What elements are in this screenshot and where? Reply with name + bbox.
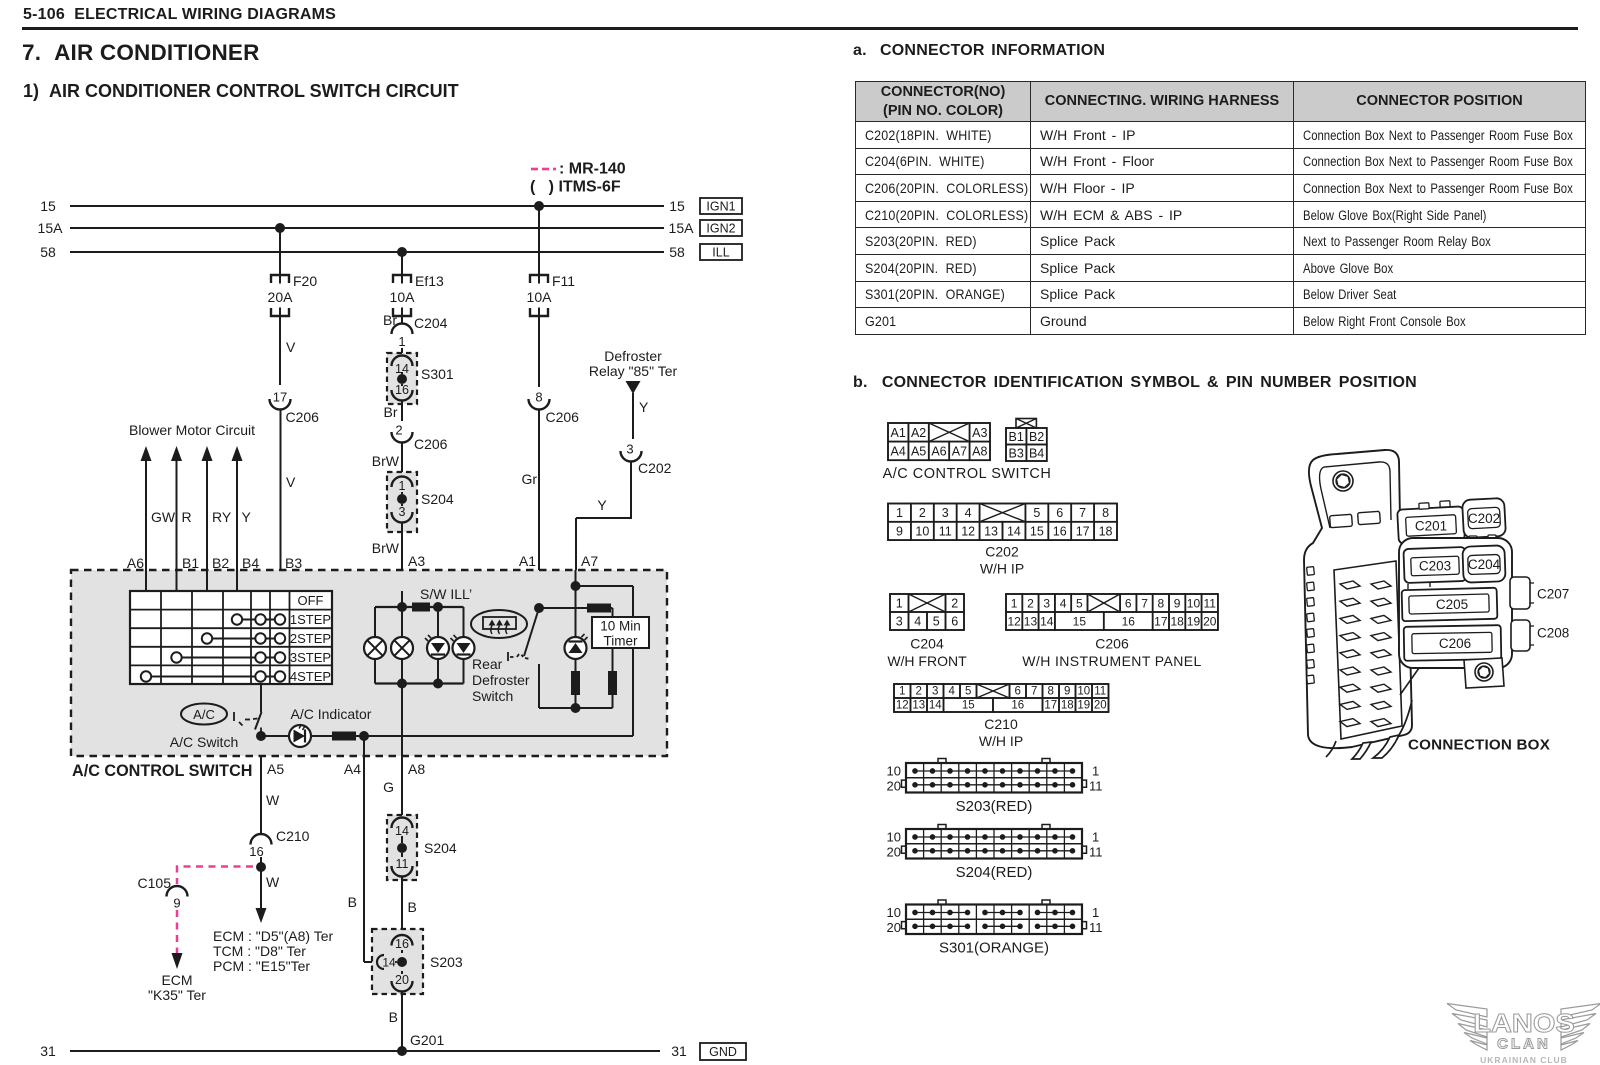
svg-text:20: 20 <box>887 778 901 793</box>
wire LED to resistor <box>311 735 332 737</box>
svg-text:1: 1 <box>899 686 905 698</box>
svg-text:C201: C201 <box>1415 519 1447 534</box>
svg-text:20: 20 <box>887 844 901 859</box>
wire A7 node to LED branch <box>575 570 577 637</box>
connector C105 pin 9 <box>138 875 188 911</box>
svg-text:C202: C202 <box>638 460 672 476</box>
svg-text:14: 14 <box>1040 615 1054 629</box>
svg-text:LANOS: LANOS <box>1473 1008 1574 1037</box>
A/C switch blade and linkage <box>234 712 262 732</box>
wire bus15A to fuse F20 <box>279 228 281 275</box>
svg-text:15A: 15A <box>38 220 64 236</box>
pin label B3 <box>285 555 302 571</box>
svg-text:5: 5 <box>1033 506 1040 520</box>
connector C207 <box>1510 577 1569 609</box>
svg-text:12: 12 <box>1007 615 1021 629</box>
wire C202-3 to pin A7, color Y <box>576 462 631 571</box>
svg-text:C206: C206 <box>286 409 320 425</box>
connector C205 <box>1402 582 1498 621</box>
svg-text:20: 20 <box>887 920 901 935</box>
junction node A7 <box>571 581 581 591</box>
svg-text:13: 13 <box>984 524 998 538</box>
svg-text:A/C Switch: A/C Switch <box>170 734 238 750</box>
switch contacts 1STEP row <box>232 614 285 624</box>
wire timer box to bottom node resistor <box>612 648 614 671</box>
net label box IGN1 <box>700 198 742 214</box>
svg-text:13: 13 <box>1024 615 1038 629</box>
junction node C105 tap <box>256 862 266 872</box>
svg-text:15: 15 <box>1073 615 1087 629</box>
svg-text:C202: C202 <box>985 544 1019 560</box>
svg-text:B: B <box>389 1009 398 1025</box>
junction node timer bottom <box>571 703 581 713</box>
wire fuse Ef13 to connector C204-1, color Br <box>383 312 402 328</box>
svg-text:B: B <box>408 899 417 915</box>
svg-text:C205: C205 <box>1436 597 1468 612</box>
LED lamp 1 <box>425 635 449 659</box>
connector C204 pin 1 <box>392 315 448 349</box>
svg-text:GW: GW <box>151 509 176 525</box>
legend MR-140 / ITMS-6F <box>530 161 626 196</box>
svg-text:4: 4 <box>1060 597 1067 611</box>
svg-text:A8: A8 <box>972 444 987 458</box>
resistor S/W ILL on top rail <box>412 603 430 612</box>
svg-text:10: 10 <box>887 905 901 920</box>
wire resistor to bottom node <box>575 695 577 708</box>
net label box IGN2 <box>700 220 742 236</box>
svg-text:C207: C207 <box>1537 587 1569 602</box>
svg-text:ECM : "D5"(A8) Ter: ECM : "D5"(A8) Ter <box>213 928 333 944</box>
svg-text:A6: A6 <box>127 555 144 571</box>
svg-text:14: 14 <box>929 700 942 712</box>
pin label B4 <box>242 555 259 571</box>
svg-text:G: G <box>383 779 394 795</box>
svg-text:19: 19 <box>1187 615 1201 629</box>
svg-text:Y: Y <box>242 509 252 525</box>
label C206 W/H INSTRUMENT PANEL <box>1022 636 1201 670</box>
svg-text:C202: C202 <box>1468 511 1500 526</box>
svg-text:4: 4 <box>914 615 921 629</box>
svg-text:C206: C206 <box>1095 636 1129 652</box>
title 7. AIR CONDITIONER <box>22 40 260 66</box>
pin label A3 <box>408 553 425 569</box>
svg-text:11: 11 <box>1089 844 1103 859</box>
svg-text:A2: A2 <box>911 426 926 440</box>
svg-text:20: 20 <box>1094 700 1107 712</box>
pin diagram A/C control switch A-side <box>888 423 990 460</box>
label CONNECTION BOX <box>1408 737 1550 754</box>
wire A8 to splice S204, color G <box>383 756 402 819</box>
svg-text:4: 4 <box>965 506 972 520</box>
svg-text:6: 6 <box>1125 597 1132 611</box>
svg-text:13: 13 <box>912 700 925 712</box>
wire bus 15A (IGN2) <box>38 220 695 236</box>
connection box side clips <box>1307 567 1315 684</box>
svg-text:A3: A3 <box>408 553 425 569</box>
connection box bottom tab with screw <box>1464 658 1504 688</box>
svg-text:10A: 10A <box>390 289 416 305</box>
connector block container <box>1399 538 1512 668</box>
A/C CONTROL SWITCH block (dashed box) <box>71 570 667 780</box>
wire A1 node to timer resistor <box>539 607 587 609</box>
svg-text:1: 1 <box>1092 763 1099 778</box>
svg-text:ILL: ILL <box>712 246 729 260</box>
blower motor circuit arrows with wires GW R RY Y <box>129 422 255 591</box>
resistor timer input <box>587 604 611 613</box>
svg-text:6: 6 <box>1015 686 1021 698</box>
svg-text:Defroster: Defroster <box>472 672 530 688</box>
svg-text:2: 2 <box>395 423 402 438</box>
splice pack drawing S203(RED) <box>887 759 1103 816</box>
svg-text:S204(RED): S204(RED) <box>956 864 1033 881</box>
svg-text:58: 58 <box>40 244 56 260</box>
svg-text:A/C: A/C <box>193 707 215 722</box>
wire relay to connector C202-3, color Y <box>633 393 649 439</box>
pin diagram C202 <box>888 504 1117 541</box>
svg-text:17: 17 <box>273 390 287 405</box>
svg-text:1: 1 <box>896 597 903 611</box>
svg-text:C208: C208 <box>1537 626 1569 641</box>
svg-text:W/H IP: W/H IP <box>979 733 1023 749</box>
svg-text:8: 8 <box>1102 506 1109 520</box>
wire resistor to timer box <box>611 608 613 617</box>
svg-text:B1: B1 <box>182 555 199 571</box>
svg-text:18: 18 <box>1061 700 1074 712</box>
svg-text:3: 3 <box>896 615 903 629</box>
svg-text:11: 11 <box>396 857 409 871</box>
connector C202 (box) <box>1462 498 1506 542</box>
svg-text:B1: B1 <box>1009 430 1024 444</box>
pin label A7 <box>581 553 598 569</box>
wire S301 to connector C206-2, color Br <box>384 401 403 422</box>
wire LED to resistor below <box>575 659 577 671</box>
svg-text:PCM : "E15"Ter: PCM : "E15"Ter <box>213 958 310 974</box>
pin diagram C204 <box>890 594 964 630</box>
wire bus 31 (GND) <box>40 1043 687 1059</box>
wire matrix output to A/C switch <box>260 684 262 712</box>
fan step switch matrix grid <box>130 591 332 684</box>
svg-text:15: 15 <box>40 198 56 214</box>
svg-text:5: 5 <box>933 615 940 629</box>
connector C208 <box>1511 620 1569 651</box>
splice pack S204 pins 14/11 <box>387 815 457 880</box>
svg-text:16: 16 <box>395 937 409 951</box>
svg-text:14: 14 <box>1007 524 1021 538</box>
10 min timer box <box>592 617 649 649</box>
wire bus58 to fuse Ef13 <box>401 252 403 275</box>
rear defroster switch blade and linkage <box>508 608 539 661</box>
svg-text:: MR-140: : MR-140 <box>559 161 626 178</box>
svg-text:Blower Motor Circuit: Blower Motor Circuit <box>129 422 255 438</box>
connector C206 pin 8 <box>529 390 580 426</box>
svg-text:S301: S301 <box>421 366 454 382</box>
label C210 W/H IP <box>979 716 1023 749</box>
svg-text:CLAN: CLAN <box>1497 1036 1551 1053</box>
wire C204-1 to splice S301 <box>401 348 403 355</box>
svg-text:"K35" Ter: "K35" Ter <box>148 987 206 1003</box>
svg-text:Br: Br <box>384 404 398 420</box>
svg-text:3: 3 <box>1043 597 1050 611</box>
pin label A4 <box>344 761 361 777</box>
svg-text:GND: GND <box>709 1045 737 1059</box>
splice pack S204 pins 1/3 <box>387 472 454 532</box>
svg-text:Y: Y <box>597 497 607 513</box>
terminal label ECM K35 <box>148 972 206 1003</box>
svg-text:B3: B3 <box>1009 446 1024 460</box>
svg-text:TCM : "D8" Ter: TCM : "D8" Ter <box>213 943 306 959</box>
svg-text:Y: Y <box>639 399 649 415</box>
label C202 W/H IP <box>980 544 1024 577</box>
wire lamp rail to pin A8 <box>401 684 403 757</box>
svg-text:16: 16 <box>395 383 409 397</box>
svg-text:1: 1 <box>1092 829 1099 844</box>
wire dashed C105 to ECM K35 <box>172 910 183 969</box>
connection box fuse slots <box>1340 581 1391 727</box>
svg-text:UKRAINIAN CLUB: UKRAINIAN CLUB <box>1480 1055 1568 1065</box>
svg-text:17: 17 <box>1154 615 1168 629</box>
svg-text:A1: A1 <box>891 426 906 440</box>
pin label B1 <box>182 555 199 571</box>
splice pack drawing S301(ORANGE) <box>887 900 1103 957</box>
svg-text:W: W <box>266 874 280 890</box>
svg-text:A/C Indicator: A/C Indicator <box>291 706 372 722</box>
junction node on bus 15 at F11 column <box>534 201 544 211</box>
svg-text:4STEP: 4STEP <box>290 669 331 684</box>
svg-text:5: 5 <box>1076 597 1083 611</box>
junction node A1 defroster switch <box>534 603 544 613</box>
svg-text:15: 15 <box>669 198 685 214</box>
switch contacts 3STEP row <box>171 652 285 662</box>
svg-text:F20: F20 <box>293 273 317 289</box>
pin label A8 <box>408 761 425 777</box>
pin label A5 <box>267 761 284 777</box>
svg-text:B2: B2 <box>1029 430 1044 444</box>
arrow A5 output to ECM/TCM/PCM <box>256 908 267 923</box>
svg-text:A/C CONTROL SWITCH: A/C CONTROL SWITCH <box>883 466 1052 482</box>
svg-text:1STEP: 1STEP <box>290 612 331 627</box>
svg-text:W/H IP: W/H IP <box>980 561 1024 577</box>
svg-text:IGN1: IGN1 <box>706 200 735 214</box>
A/C switch oval label <box>170 704 238 751</box>
svg-text:1: 1 <box>1092 905 1099 920</box>
wire S204 to S203, color B <box>402 877 417 932</box>
svg-text:10A: 10A <box>527 289 553 305</box>
pin label A1 <box>519 553 536 569</box>
svg-text:Relay "85" Ter: Relay "85" Ter <box>589 363 678 379</box>
svg-text:12: 12 <box>896 700 909 712</box>
wire bus15 to fuse F11 <box>538 206 540 275</box>
svg-text:A7: A7 <box>581 553 598 569</box>
svg-text:C206: C206 <box>546 409 580 425</box>
svg-text:15: 15 <box>1030 524 1044 538</box>
svg-text:G201: G201 <box>410 1032 444 1048</box>
svg-text:7: 7 <box>1031 686 1037 698</box>
svg-text:18: 18 <box>1170 615 1184 629</box>
svg-text:10: 10 <box>915 524 929 538</box>
svg-text:9: 9 <box>896 524 903 538</box>
connector C210 pin 16 <box>249 828 309 859</box>
junction node on bus 58 at Ef13 column <box>397 247 407 257</box>
pin diagram A/C control switch B-side <box>1006 419 1047 462</box>
wire resistor to node A4 <box>356 735 364 737</box>
label C204 W/H FRONT <box>887 636 967 670</box>
svg-text:A4: A4 <box>891 444 906 458</box>
svg-text:7: 7 <box>1141 597 1148 611</box>
svg-text:18: 18 <box>1099 524 1113 538</box>
svg-text:20A: 20A <box>268 289 294 305</box>
svg-text:A/C CONTROL SWITCH: A/C CONTROL SWITCH <box>72 762 252 780</box>
illumination lamp 2 <box>391 637 413 659</box>
illumination lamp 1 <box>364 637 386 659</box>
wire indicator row to timer riser <box>364 735 633 737</box>
defroster switch fixed contact wire <box>539 664 575 708</box>
svg-text:19: 19 <box>1077 700 1090 712</box>
svg-text:2: 2 <box>916 686 922 698</box>
svg-text:B4: B4 <box>1029 446 1044 460</box>
svg-text:A1: A1 <box>519 553 536 569</box>
connector C201 <box>1397 501 1465 544</box>
resistor timer output <box>608 671 617 695</box>
svg-text:3: 3 <box>626 442 633 457</box>
svg-text:58: 58 <box>669 244 685 260</box>
pin label B2 <box>212 555 229 571</box>
svg-text:R: R <box>182 509 192 525</box>
svg-text:C206: C206 <box>1439 636 1471 651</box>
wire S203 to ground node G201, color B <box>389 992 402 1052</box>
svg-text:V: V <box>286 339 296 355</box>
connector C206 pin 2 <box>392 423 448 453</box>
svg-text:17: 17 <box>1044 700 1057 712</box>
svg-text:W/H INSTRUMENT PANEL: W/H INSTRUMENT PANEL <box>1022 653 1201 669</box>
svg-text:C210: C210 <box>984 716 1018 732</box>
wire C210-16 to node, color W <box>261 857 280 908</box>
svg-text:11: 11 <box>1094 686 1106 698</box>
wire C206-17 to pin B3, color V <box>281 410 297 592</box>
svg-text:W/H FRONT: W/H FRONT <box>887 653 967 669</box>
fuse F20 20A <box>268 273 318 316</box>
svg-text:IGN2: IGN2 <box>706 222 735 236</box>
splice pack drawing S204(RED) <box>887 825 1103 882</box>
svg-text:3: 3 <box>932 686 938 698</box>
junction nodes lamp rails <box>397 602 443 689</box>
svg-text:Switch: Switch <box>472 688 513 704</box>
svg-text:10: 10 <box>1077 686 1090 698</box>
svg-text:5: 5 <box>965 686 971 698</box>
splice pack S203 pins 16/14/20 <box>372 929 463 994</box>
svg-text:11: 11 <box>1089 778 1103 793</box>
watermark logo LANOS CLAN <box>1447 1004 1600 1065</box>
rear defroster switch text <box>472 656 530 704</box>
connection box cables <box>1326 668 1419 759</box>
S/W ILL lamp group rails <box>375 586 472 684</box>
svg-text:11: 11 <box>1204 597 1217 611</box>
svg-text:2STEP: 2STEP <box>290 631 331 646</box>
svg-text:C204: C204 <box>910 636 944 652</box>
junction node A/C switch / A5 / indicator <box>256 731 266 741</box>
svg-text:6: 6 <box>951 615 958 629</box>
connection box mounting screw <box>1333 471 1353 491</box>
connector C202 pin 3 <box>621 442 672 477</box>
wire timer output resistor to bottom node <box>576 695 613 708</box>
svg-text:S/W ILL’: S/W ILL’ <box>420 586 472 602</box>
svg-text:Defroster: Defroster <box>604 348 662 364</box>
svg-text:Ef13: Ef13 <box>415 273 444 289</box>
svg-text:1: 1 <box>399 479 406 493</box>
svg-text:16: 16 <box>1122 615 1136 629</box>
svg-text:BrW: BrW <box>372 453 400 469</box>
svg-text:8: 8 <box>1048 686 1054 698</box>
svg-text:10: 10 <box>887 829 901 844</box>
svg-text:2: 2 <box>951 597 958 611</box>
svg-text:CONNECTION BOX: CONNECTION BOX <box>1408 737 1550 754</box>
connector C203 <box>1403 547 1466 583</box>
svg-text:4: 4 <box>949 686 956 698</box>
svg-text:W: W <box>266 792 280 808</box>
svg-text:OFF: OFF <box>298 593 324 608</box>
wire bus 58 (ILL) <box>40 244 685 260</box>
svg-text:C204: C204 <box>414 315 448 331</box>
wire A4 to splice S203 pin 14, color B <box>348 736 377 962</box>
svg-text:31: 31 <box>671 1043 687 1059</box>
svg-text:10: 10 <box>887 763 901 778</box>
svg-text:BrW: BrW <box>372 540 400 556</box>
svg-text:3: 3 <box>399 505 406 519</box>
wire bus 15 (IGN1) <box>40 198 685 214</box>
svg-text:1: 1 <box>398 334 405 349</box>
svg-text:A5: A5 <box>911 444 926 458</box>
svg-text:RY: RY <box>212 509 232 525</box>
svg-text:A7: A7 <box>952 444 967 458</box>
svg-text:A4: A4 <box>344 761 361 777</box>
wire C206-2 to splice S204, color BrW <box>372 443 402 475</box>
svg-text:16: 16 <box>1053 524 1067 538</box>
svg-text:A8: A8 <box>408 761 425 777</box>
svg-text:C105: C105 <box>138 875 172 891</box>
svg-text:Gr: Gr <box>521 471 537 487</box>
svg-text:3: 3 <box>942 506 949 520</box>
connector C204 (box) <box>1462 545 1505 582</box>
ground node G201 <box>397 1032 444 1056</box>
svg-text:15: 15 <box>962 700 975 712</box>
svg-text:S203(RED): S203(RED) <box>956 798 1033 815</box>
svg-text:C210: C210 <box>276 828 310 844</box>
svg-text:11: 11 <box>1089 920 1103 935</box>
wire C206-8 to pin A1, color Gr <box>521 410 539 571</box>
terminal labels ECM TCM PCM <box>213 928 333 974</box>
wire S204 to pin A3, color BrW <box>372 523 402 592</box>
header rule <box>22 27 1578 30</box>
svg-text:10: 10 <box>1187 597 1201 611</box>
pin diagram C210 <box>894 684 1109 712</box>
svg-text:Timer: Timer <box>604 634 638 649</box>
resistor LED branch <box>571 671 580 695</box>
svg-text:B3: B3 <box>285 555 302 571</box>
svg-text:9: 9 <box>1064 686 1070 698</box>
svg-text:( ) ITMS-6F: ( ) ITMS-6F <box>530 179 621 196</box>
svg-text:V: V <box>286 474 296 490</box>
defroster relay 85 terminal feed <box>589 348 678 394</box>
page header: manual section title <box>23 6 336 24</box>
svg-text:B: B <box>348 894 357 910</box>
wire fuse F20 to connector C206-17, color V <box>280 316 296 385</box>
connection box fuse holder body <box>1304 450 1412 748</box>
svg-text:16: 16 <box>249 844 263 859</box>
subtitle 1) AIR CONDITIONER CONTROL SWITCH CIRCUIT <box>23 81 459 102</box>
connector C206 (box) <box>1404 625 1502 661</box>
label A/C CONTROL SWITCH <box>883 466 1052 482</box>
connector C206 pin 17 <box>270 390 320 426</box>
svg-text:7: 7 <box>1079 506 1086 520</box>
